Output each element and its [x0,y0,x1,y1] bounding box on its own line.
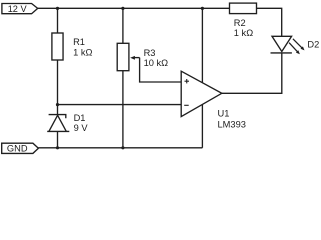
op-amp U1 LM393 [181,71,246,129]
svg-text:U1: U1 [218,108,230,118]
node GND ground flag [2,143,39,154]
wire LED cathode to op-amp output [222,53,282,93]
junction top rail / R3 [121,7,124,10]
svg-text:LM393: LM393 [218,120,246,130]
wire op-amp V- pin [201,104,203,147]
svg-text:10 kΩ: 10 kΩ [144,58,169,68]
svg-text:R1: R1 [73,37,85,47]
wire R1 bottom to D1 cathode [57,60,59,115]
svg-text:1 kΩ: 1 kΩ [234,28,253,38]
LED D2 [271,36,320,54]
node 12V supply flag [2,4,38,15]
pin - inverting input [184,104,189,106]
wire op-amp V+ pin [201,8,203,82]
svg-text:D2: D2 [307,40,319,50]
junction minus wire / R1-D1 node [56,103,59,106]
svg-text:GND: GND [7,144,28,154]
wire R3 top pin [122,8,124,43]
wire R2 right to LED anode [257,8,282,36]
wire R3 wiper to op-amp plus input [140,58,182,82]
wire D1 anode to ground rail [57,131,59,147]
wire R3 bottom pin to ground rail [122,71,124,148]
wire minus input from D1 node [58,104,182,106]
potentiometer R3 [117,43,168,70]
junction ground rail / R3 [121,146,124,149]
svg-text:R3: R3 [144,48,156,58]
junction top rail / R1 [56,7,59,10]
junction top rail / V+ pin [201,7,204,10]
svg-text:D1: D1 [74,113,86,123]
resistor R1 [52,33,93,60]
wire top rail 12V net [38,7,230,9]
resistor R2 [230,3,257,38]
wire R1 top pin [57,8,59,33]
zener diode D1 9V [47,113,88,133]
svg-text:9 V: 9 V [74,123,89,133]
junction ground rail / D1 [56,146,59,149]
pin + non-inverting input [185,79,190,83]
svg-text:12 V: 12 V [8,4,28,14]
svg-text:1 kΩ: 1 kΩ [73,47,92,57]
wire bottom ground rail [38,147,202,149]
svg-text:R2: R2 [234,18,246,28]
